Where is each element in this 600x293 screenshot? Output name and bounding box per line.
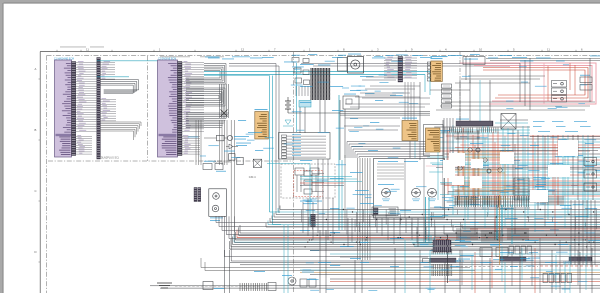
upper bus group [280,209,600,211]
J2 bus verticals [219,84,221,118]
cyan corner wires at connector [410,235,434,246]
harness area bottom dash-dot [48,160,293,162]
J2 bus lines [186,112,229,114]
connector hatch bar row3 [569,257,592,261]
vertical bundle at x443-455 [443,118,445,175]
module boxes row bottom right [509,246,514,254]
riser bundle center [356,158,358,260]
P1 stubs upper [100,62,115,64]
water in fuel symbol [285,120,291,125]
scattered cyan micro labels [208,57,220,60]
panel feed lines [347,141,430,143]
fuse panel box [279,133,331,160]
extra mesh density right half [500,119,528,121]
P1 lower bus [100,121,141,123]
pink harness loop outer [470,63,596,104]
page shadow edge [4,2,600,4]
svg-text:(DLN2PLUS SC): (DLN2PLUS SC) [100,156,119,159]
orange vertical right [499,195,501,265]
panel inner rows [377,163,404,165]
C880 dashed link [540,265,600,267]
svg-text:D: D [35,250,37,254]
junction dots bus2 [472,244,473,245]
solenoid feed verticals [230,165,232,228]
fuse block F1 tan [431,56,448,57]
relay boxes above solenoids [203,164,212,170]
keyswitch box [463,57,485,65]
filter component [217,135,225,141]
P1 stubs lower [100,99,116,101]
cyan bus corner from drop pair [270,211,281,213]
zone divider dash-dot [293,52,295,293]
cyan text rows right of ladder [533,176,546,179]
ground strap box [253,159,261,167]
relay K1 [292,58,299,63]
verticals panel to bus x300-430 [302,202,304,233]
connector hatch bar row2 [500,257,526,261]
right mesh verticals [437,128,439,200]
more micro labels dense zones [555,155,562,158]
J2 loop group B [186,88,225,106]
gauge cyan drops [425,197,427,243]
note text under top border [160,55,190,58]
vertical bundle far right [570,200,572,265]
module box bottom [203,282,213,290]
cyan link mid [97,76,129,78]
sheet border top [40,51,600,53]
connector hatch bar row1 [430,258,456,262]
top right gray wires [486,58,600,60]
panel label [300,200,322,203]
left long wires to bottom [201,268,475,271]
orange module tall [255,109,268,110]
cyan riser x296 [296,63,298,132]
white routing gaps mid-right [449,153,465,166]
mid horizontal bus y111 [340,110,430,112]
staircase from solenoid area [216,216,600,222]
relay cluster boxes top-mid [294,68,301,73]
C12 stubs right [403,57,417,59]
F1 pin boxes [427,62,430,65]
svg-text:B: B [35,128,37,132]
red pair mid-left [300,182,344,184]
extra cyan weave bottom [300,176,352,178]
sensor blobs mid-right [476,148,480,152]
margin dash-dot top [47,55,600,57]
J2 loop group A [186,64,226,85]
sensor circle [227,135,232,140]
notes row above border [60,46,86,49]
cyan sensor box [299,101,311,108]
stack vertical spine [447,235,449,283]
harness dash-dot right top [459,52,461,130]
margin dash-dot left [46,56,48,293]
thick cyan verticals right [496,205,498,240]
J2 pin strip [178,62,183,156]
comb rows right of tan [454,131,456,135]
diode [229,144,233,149]
gauge box inner dividers [404,159,406,219]
bottom right cluster [480,248,492,257]
hatch block bottom right [433,240,451,246]
relay panel dashed box [281,164,335,198]
hatched module X [501,114,516,130]
small hatch strip under panel [311,214,316,227]
connector stack combs [431,249,433,255]
svg-text:12: 12 [241,47,245,51]
connector grid block [514,178,529,200]
svg-text:10: 10 [479,47,483,51]
red feeds [483,68,588,99]
battery [285,100,291,102]
alternator [338,58,348,72]
svg-text:C: C [35,189,37,193]
J2 bottom stubs [182,136,200,138]
corner wire cascade mid-bus [462,225,600,229]
extra top band labels [205,56,219,59]
bottom wire rows [230,262,600,264]
J1 bottom stubs [76,136,92,138]
verticals above tan module [404,82,406,120]
gray links with corner drop [229,64,279,214]
breaker boxes [580,77,592,83]
relay symbols row2 inside panel [304,171,312,176]
riser bundle from J2 to bottom [195,120,197,165]
right mesh left verticals [339,100,341,160]
relay symbols inside [295,168,304,175]
DIN connector bar [456,121,493,126]
bottom small components row [157,283,172,288]
red connector pills [436,240,439,242]
svg-text:C880-A: C880-A [455,259,464,263]
svg-text:(DLN2PLUS SC): (DLN2PLUS SC) [213,160,232,163]
CAN cyan pair long [204,71,430,73]
orange weave mid-right [458,151,512,153]
svg-text:A: A [35,67,37,71]
right column white band and boxes [531,114,600,135]
hatched strip pair left of solenoid [194,188,197,202]
small box B [229,154,235,160]
right mesh horizontals [434,126,530,128]
J2 lower header band [159,134,177,136]
svg-text:11: 11 [86,47,89,51]
svg-text:11: 11 [547,47,550,51]
vertical feeds to bottom edge [223,250,225,293]
harness divider dash-dot [147,56,149,161]
tan module second [424,125,444,156]
cyan link top [97,60,163,62]
comb connectors above bus right [455,196,457,205]
J1 lower header band [56,134,72,136]
gauge panel text box [372,207,398,216]
cyan drop pair vertical [269,76,271,213]
C12 stubs left [384,57,398,59]
relay K2 [303,59,309,63]
battery feed wires [287,109,289,113]
alternator small bottom [288,277,296,285]
instrument panel box [374,159,445,219]
harness connector strip P1 [97,58,101,160]
J2 pin stubs [182,62,204,64]
connector strip C12 [398,57,403,83]
solenoid box two circles [209,189,227,217]
comb connector bottom [239,283,241,291]
svg-text:C880-A: C880-A [563,260,572,264]
fuse column [442,84,452,88]
bottom right fill lines [430,207,530,209]
tan module mid [402,118,417,119]
relay boxes right column [584,158,597,166]
J1 pin strip [72,62,76,156]
terminal strip block [310,68,312,100]
lower bus group [240,232,600,234]
relay K3 [343,96,359,109]
J1 pin stubs [76,62,97,64]
gauge circles [382,188,391,197]
svg-text:C34 4: C34 4 [249,176,256,179]
zone ticks and numbers [56,50,58,52]
bus taps vertical [434,220,436,245]
mesh tick combs [444,128,446,133]
wire weave x370-430 y75-130 [370,85,420,87]
relay column right [552,81,567,88]
pink risers [543,63,545,104]
small box C [237,157,243,164]
junction crossing [221,110,228,117]
comb groups below bus [456,228,458,240]
P1 wire loops mid [100,80,138,94]
teal vertical pair center [338,95,340,230]
top right vertical wires [465,56,467,80]
red dashed loop inside panel [294,170,323,196]
sheet border left [39,52,41,293]
mesh small circles [468,148,472,152]
cyan loop top edge [267,163,310,165]
alternator area weave [366,76,398,78]
gray dashed link mid [456,266,538,268]
tap junction dots [309,239,310,240]
